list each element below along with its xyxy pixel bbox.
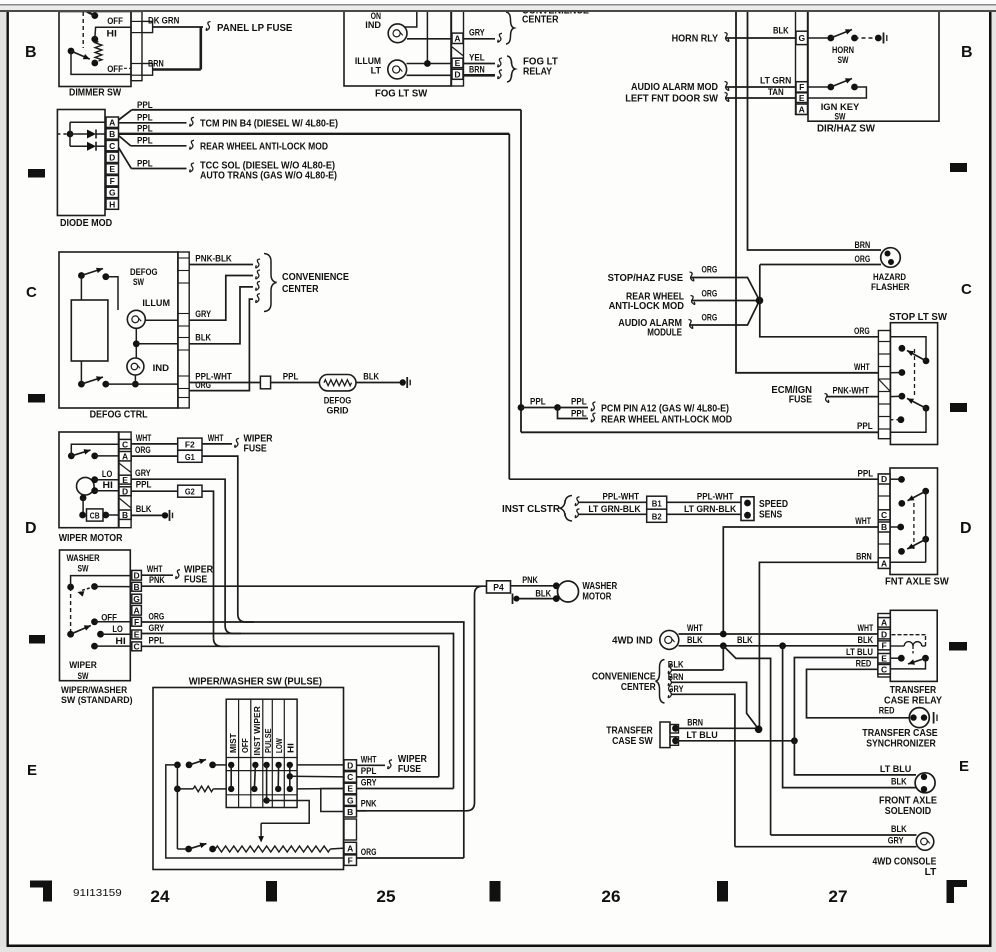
vertical from page top to ILLUM wire xyxy=(426,11,428,64)
wire vertical WHT x=736 from page top to stop lt sw xyxy=(736,11,878,373)
wire PPL vertical x=509 down to FNT AXLE feed xyxy=(508,134,510,479)
washer sw dashed pivot link xyxy=(70,587,72,634)
svg-text:TAN: TAN xyxy=(768,87,784,97)
wire switch to PPL-WHT out xyxy=(106,383,178,385)
svg-text:YEL: YEL xyxy=(469,53,485,63)
pulse sw pin F xyxy=(344,855,357,866)
wire GRY to 4wd console lt xyxy=(735,846,917,848)
svg-text:SYNCHRONIZER: SYNCHRONIZER xyxy=(866,739,936,750)
svg-text:P4: P4 xyxy=(493,582,503,592)
wire ORG wiper motor pin A to G1 xyxy=(131,455,178,457)
dimmer sw pin (BRN) xyxy=(142,64,153,76)
wire vertical junction to panel lp fuse xyxy=(200,27,203,70)
svg-text:PPL: PPL xyxy=(571,397,587,407)
wire PPL long to STOP LT SW xyxy=(521,431,878,433)
synchronizer ground xyxy=(933,712,935,724)
wire BLK convenience center xyxy=(668,665,672,674)
washer motor circle xyxy=(558,581,579,602)
svg-text:BLK: BLK xyxy=(668,660,684,670)
svg-text:GRY: GRY xyxy=(888,836,904,846)
svg-text:4WD CONSOLE: 4WD CONSOLE xyxy=(873,857,937,868)
svg-text:F: F xyxy=(799,82,804,92)
svg-text:E: E xyxy=(27,762,37,779)
fnt axle internal vertical xyxy=(925,491,927,562)
svg-text:LO: LO xyxy=(112,624,122,634)
wire LT BLU transfer case sw xyxy=(676,740,795,742)
svg-text:MODULE: MODULE xyxy=(647,328,682,339)
fnt axle pin A xyxy=(878,558,890,569)
pulse table contact dots row 2 xyxy=(228,786,234,792)
defog sw switch bottom xyxy=(78,381,85,388)
wire PPL to defog grid xyxy=(271,382,320,384)
svg-text:G1: G1 xyxy=(185,452,195,462)
fnt axle pin B xyxy=(878,522,890,532)
svg-text:OFF: OFF xyxy=(101,612,117,622)
fnt axle pin D xyxy=(878,474,890,484)
stop lt sw switch 1 xyxy=(923,358,930,365)
svg-text:B1: B1 xyxy=(652,498,662,508)
svg-text:C: C xyxy=(109,141,115,151)
svg-text:E: E xyxy=(109,164,115,174)
diode mod pin A xyxy=(106,117,119,127)
svg-text:H: H xyxy=(109,199,115,209)
left page border line xyxy=(7,10,9,946)
svg-text:F: F xyxy=(134,617,139,627)
bottom page border line xyxy=(7,945,992,948)
wire BLK washer motor to ground xyxy=(519,598,556,600)
wire BRN to fog lt relay (bold) xyxy=(464,74,496,77)
wire PPL vertical x=521 down to PCM junction xyxy=(520,110,522,433)
svg-text:REAR WHEEL ANTI-LOCK MOD: REAR WHEEL ANTI-LOCK MOD xyxy=(601,415,732,426)
svg-text:GRY: GRY xyxy=(149,623,165,633)
svg-text:B: B xyxy=(122,510,128,520)
washer switch contacts xyxy=(67,584,74,591)
svg-text:91I13159: 91I13159 xyxy=(73,887,122,899)
wire PNK P4 to washer motor xyxy=(511,585,557,587)
pulse sw pin D xyxy=(344,760,357,771)
svg-text:ORG: ORG xyxy=(702,289,718,299)
pulse sw pin E xyxy=(344,783,357,794)
defog sw switch top xyxy=(78,272,85,279)
svg-text:WHT: WHT xyxy=(208,433,224,443)
relay switch xyxy=(890,657,901,659)
dir/haz pin F xyxy=(796,82,808,92)
svg-text:ILLUM: ILLUM xyxy=(355,56,381,66)
svg-text:WASHER: WASHER xyxy=(66,553,99,564)
svg-text:ORG: ORG xyxy=(855,254,871,264)
wire GRY washer sw row to corner xyxy=(141,634,453,789)
svg-text:GRY: GRY xyxy=(469,28,485,38)
wiper motor LO tap xyxy=(91,476,98,483)
horn switch HORN SW xyxy=(808,37,831,39)
svg-text:LT GRN-BLK: LT GRN-BLK xyxy=(588,504,641,514)
svg-text:PPL: PPL xyxy=(137,100,153,110)
svg-text:PNK: PNK xyxy=(149,575,165,585)
svg-text:C: C xyxy=(122,439,128,449)
circuit breaker CB box xyxy=(87,509,104,521)
wire BLK defog grid to ground xyxy=(356,382,400,384)
svg-text:B: B xyxy=(347,807,353,817)
svg-text:CB: CB xyxy=(90,510,100,520)
svg-text:GRID: GRID xyxy=(327,406,349,417)
svg-text:ORG: ORG xyxy=(135,445,151,455)
speed sensor SPEED SENS connector xyxy=(741,497,754,521)
svg-text:A: A xyxy=(454,34,460,44)
wire PNK washer sw pin B to P4 xyxy=(141,585,486,587)
lamp IND defog xyxy=(127,358,144,375)
wiper motor switch xyxy=(68,453,75,460)
right margin tick 2 xyxy=(950,403,967,412)
wire DK GRN xyxy=(153,26,203,28)
svg-text:PPL: PPL xyxy=(283,372,299,382)
diode mod pin B xyxy=(106,129,119,139)
pulse internal ORG feed to pin F xyxy=(166,765,344,858)
wire PPL to fnt axle pin D xyxy=(509,478,878,480)
svg-text:G: G xyxy=(347,795,354,805)
fnt axle dashed link xyxy=(913,503,915,549)
transfer case synchronizer circle xyxy=(909,708,929,728)
washer motor ground xyxy=(514,596,520,602)
pulse sw left vertical xyxy=(176,765,178,789)
wire WHT to fnt axle pin B xyxy=(723,527,878,634)
svg-text:BRN: BRN xyxy=(855,240,871,250)
relay pin D xyxy=(878,629,890,639)
pulse sw resistor row xyxy=(174,786,181,793)
svg-text:FUSE: FUSE xyxy=(789,395,812,406)
pulse pot wiper arm from PULSE dot xyxy=(261,801,309,824)
wire PPL pin B long row3 to x=509 xyxy=(119,133,510,135)
pulse table PULSE bottom dot xyxy=(263,797,269,803)
wire ORG rear wheel mod xyxy=(692,300,760,302)
right margin tick 3 xyxy=(949,642,967,651)
svg-text:PPL-WHT: PPL-WHT xyxy=(697,491,734,501)
svg-text:F: F xyxy=(881,641,886,651)
wire ORG defog xyxy=(189,299,253,391)
pulse wiper switch outer box xyxy=(153,688,344,870)
wiper motor bottom to CB xyxy=(80,495,87,502)
junction dot BRN xyxy=(755,726,763,734)
diode D2 xyxy=(70,145,87,147)
wire PPL wiper motor pin D to G2 xyxy=(131,490,178,492)
wire RED relay pin C to synchronizer xyxy=(807,669,910,718)
svg-text:DK GRN: DK GRN xyxy=(148,16,179,26)
svg-text:INST WIPER: INST WIPER xyxy=(252,706,262,755)
svg-text:PPL: PPL xyxy=(137,136,153,146)
squiggle panel lp fuse xyxy=(206,22,210,31)
svg-text:WHT: WHT xyxy=(361,754,377,764)
pulse sw pin G xyxy=(344,795,357,806)
svg-text:INST CLSTR: INST CLSTR xyxy=(502,504,561,515)
svg-text:24: 24 xyxy=(150,888,170,906)
svg-text:HORN RLY: HORN RLY xyxy=(672,34,719,45)
svg-text:GRY: GRY xyxy=(668,684,684,694)
svg-text:BLK: BLK xyxy=(773,26,789,36)
svg-text:IND: IND xyxy=(153,363,170,374)
svg-text:OFF: OFF xyxy=(107,64,123,74)
svg-text:PANEL LP FUSE: PANEL LP FUSE xyxy=(217,23,293,34)
svg-text:RED: RED xyxy=(856,659,872,669)
lamp ON IND xyxy=(388,24,407,43)
svg-text:BRN: BRN xyxy=(856,551,872,561)
wire GRY wiper motor pin E down xyxy=(131,479,225,625)
connector P4 box xyxy=(487,581,511,593)
wire PNK-WHT ecm fuse to stop lt sw xyxy=(826,396,878,398)
svg-text:PPL: PPL xyxy=(136,480,152,490)
svg-text:BRN: BRN xyxy=(687,718,703,728)
svg-text:PPL: PPL xyxy=(137,159,153,169)
left margin tick 1 xyxy=(28,169,45,178)
svg-text:LT BLU: LT BLU xyxy=(846,647,873,657)
svg-text:GRY: GRY xyxy=(135,468,151,478)
wire BLK into box xyxy=(136,343,178,345)
svg-text:26: 26 xyxy=(601,888,620,906)
svg-text:PPL-WHT: PPL-WHT xyxy=(603,491,640,501)
svg-text:WIPER: WIPER xyxy=(69,660,97,671)
svg-text:G: G xyxy=(798,33,805,43)
pulse sw pivot contacts xyxy=(174,762,181,769)
wiper motor pin E xyxy=(119,475,131,484)
left margin tick 3 xyxy=(29,635,45,644)
svg-text:FUSE: FUSE xyxy=(398,764,421,775)
wire GRY pulse pin E to vertical xyxy=(357,788,454,790)
svg-text:C: C xyxy=(961,281,972,298)
wire BLK vertical to convenience center row xyxy=(722,646,724,670)
svg-text:A: A xyxy=(122,451,128,461)
fuse box F2 xyxy=(178,438,202,450)
svg-text:E: E xyxy=(122,475,128,485)
svg-text:TRANSFER: TRANSFER xyxy=(890,685,937,696)
connector box B2 xyxy=(647,509,667,522)
stop lt sw internal: ORG to upper contact xyxy=(890,337,926,361)
wire PPL long row1 to x=521 xyxy=(132,109,521,111)
stop light switch STOP LT SW box xyxy=(890,323,937,445)
svg-text:A: A xyxy=(881,558,887,568)
svg-text:B: B xyxy=(961,44,973,61)
wire ORG audio alarm module xyxy=(690,301,760,326)
fog lt sw strip diagonal xyxy=(452,47,464,57)
wire ORG junction down to stop lt sw xyxy=(760,301,879,337)
svg-text:C: C xyxy=(134,642,140,652)
svg-text:A: A xyxy=(134,605,140,615)
svg-text:BLK: BLK xyxy=(891,777,907,787)
wire WHT F2 to wiper fuse xyxy=(202,443,232,445)
dir/haz pin E xyxy=(796,93,808,103)
defog grid ground xyxy=(400,379,406,385)
pulse potentiometer switch xyxy=(185,846,192,853)
wire BLK to front axle solenoid xyxy=(783,646,916,788)
pulse switch table xyxy=(226,699,297,807)
svg-text:GRY: GRY xyxy=(195,309,211,319)
svg-text:LT BLU: LT BLU xyxy=(880,764,911,774)
svg-text:PPL: PPL xyxy=(571,409,587,419)
svg-text:ILLUM: ILLUM xyxy=(142,298,170,309)
svg-text:HI: HI xyxy=(107,28,117,38)
inst clstr brace xyxy=(559,496,572,522)
defog convenience center brace xyxy=(264,254,277,312)
svg-text:SPEED: SPEED xyxy=(759,499,788,510)
svg-text:BRN: BRN xyxy=(469,64,485,74)
inline connector box (defog) xyxy=(260,376,270,389)
wire PPL pin A to long run (row 1) xyxy=(119,110,132,120)
svg-text:LT: LT xyxy=(925,867,937,878)
svg-text:PPL: PPL xyxy=(149,636,165,646)
transfer case relay box xyxy=(890,610,937,681)
svg-text:DIR/HAZ SW: DIR/HAZ SW xyxy=(817,124,876,135)
svg-text:E: E xyxy=(799,93,805,103)
wiper motor WIPER MOTOR box xyxy=(59,432,119,528)
svg-text:E: E xyxy=(455,58,461,68)
fnt axle pin B dot xyxy=(890,526,901,528)
wire BLK horn rly to pin G xyxy=(726,37,796,39)
svg-text:E: E xyxy=(881,653,887,663)
svg-text:WHT: WHT xyxy=(136,433,152,443)
wire TAN to pin E xyxy=(726,97,796,99)
svg-text:E: E xyxy=(134,630,140,640)
front axle solenoid circle xyxy=(915,773,935,793)
pulse table row to pin D xyxy=(297,764,344,766)
washer/wiper standard switch box xyxy=(60,550,131,681)
relay pin E xyxy=(878,654,890,664)
defogger control DEFOG CTRL box xyxy=(59,252,178,408)
right page border line xyxy=(989,10,992,946)
svg-text:D: D xyxy=(881,629,887,639)
wiper motor HI tap xyxy=(91,487,98,494)
relay coil to pin D loop xyxy=(922,645,926,647)
svg-text:PPL: PPL xyxy=(858,468,874,478)
fog lt sw pin D xyxy=(452,69,463,79)
relay contact to pin C xyxy=(890,658,925,669)
wire WHT 4wd ind to relay pin D xyxy=(679,633,879,635)
relay coil xyxy=(890,645,904,647)
wire LT GRN-BLK inst clstr to B2 xyxy=(575,509,579,518)
svg-text:AUTO TRANS (GAS W/O 4L80-E): AUTO TRANS (GAS W/O 4L80-E) xyxy=(200,171,337,182)
svg-text:4WD IND: 4WD IND xyxy=(612,636,653,647)
fnt axle internal pin D dot xyxy=(890,478,902,480)
dir/haz pin A xyxy=(796,104,808,114)
svg-text:B: B xyxy=(134,582,140,592)
svg-text:SENS: SENS xyxy=(759,510,782,521)
svg-text:B: B xyxy=(109,129,115,139)
wiper motor pin D xyxy=(119,487,131,496)
defog lamps link vertical xyxy=(135,328,137,358)
defog inner rectangle xyxy=(71,300,108,361)
dimmer sw pivot wire to strip xyxy=(71,51,131,74)
svg-text:TRANSFER CASE: TRANSFER CASE xyxy=(862,728,938,739)
svg-text:A: A xyxy=(109,117,115,127)
defog connector strip xyxy=(178,252,189,408)
pulse table column links xyxy=(230,765,232,789)
wire ON IND lamp to pin A xyxy=(407,38,452,40)
wiper motor circle xyxy=(77,477,95,495)
wire GRY convenience center xyxy=(668,689,672,698)
lamp ILLUM LT xyxy=(388,60,407,79)
horn sw ground xyxy=(883,33,885,44)
pulse potentiometer resistor xyxy=(215,846,330,852)
svg-text:SW: SW xyxy=(78,564,89,575)
svg-text:WHT: WHT xyxy=(858,623,874,633)
wire BLK defog xyxy=(189,287,253,344)
svg-text:PPL: PPL xyxy=(857,421,873,431)
dimmer sw contact HI to DK GRN row xyxy=(91,36,98,43)
svg-text:E: E xyxy=(347,784,353,794)
svg-text:27: 27 xyxy=(828,888,847,906)
svg-text:MIST: MIST xyxy=(228,733,238,753)
washer sw connector strip pins xyxy=(132,570,142,580)
wire PNK pulse pin B to vertical xyxy=(357,810,367,812)
pulse table contact dots row 1 xyxy=(228,762,234,768)
wire WHT wiper motor pin C to F2 xyxy=(131,443,178,445)
svg-text:FLASHER: FLASHER xyxy=(871,282,910,293)
wire BRN to fnt axle pin A xyxy=(759,562,878,728)
diode mod pin D xyxy=(106,152,119,162)
stop lt sw internal PPL line xyxy=(890,408,926,432)
svg-text:DIMMER SW: DIMMER SW xyxy=(69,87,122,98)
defog sw wire L xyxy=(106,277,118,310)
svg-text:HI: HI xyxy=(103,480,113,490)
fog lt sw pin A xyxy=(452,33,463,43)
svg-text:ORG: ORG xyxy=(361,847,377,857)
svg-text:ORG: ORG xyxy=(702,265,718,275)
svg-text:PPL: PPL xyxy=(530,397,546,407)
svg-text:WHT: WHT xyxy=(854,362,870,372)
diode mod wire to pin A xyxy=(70,121,106,123)
dir/haz pin G xyxy=(796,31,808,44)
bottom-left corner mark xyxy=(30,881,52,902)
svg-text:AUDIO ALARM MOD: AUDIO ALARM MOD xyxy=(631,82,718,93)
svg-text:TRANSFER: TRANSFER xyxy=(606,726,653,737)
svg-text:PNK-WHT: PNK-WHT xyxy=(833,386,870,396)
lamp ILLUM defog xyxy=(127,310,145,328)
svg-text:PCM PIN A12 (GAS W/ 4L80-E): PCM PIN A12 (GAS W/ 4L80-E) xyxy=(601,404,729,415)
svg-text:E: E xyxy=(959,758,969,775)
wire BLK to 4wd console lt xyxy=(771,834,917,836)
wire WHT pulse pin D to wiper fuse xyxy=(357,764,386,766)
svg-text:B: B xyxy=(881,522,887,532)
svg-text:F: F xyxy=(348,855,353,865)
relay pin C xyxy=(878,665,890,675)
wire LT GRN to pin F xyxy=(726,86,796,88)
svg-text:MOTOR: MOTOR xyxy=(582,592,612,603)
svg-text:G: G xyxy=(133,594,140,604)
diode D1 xyxy=(70,133,87,135)
right margin tick 1 xyxy=(950,163,967,172)
wire PPL-WHT out of defog xyxy=(189,382,260,384)
pulse sw pin C xyxy=(344,772,357,783)
dimmer switch DIMMER SW box xyxy=(59,12,131,87)
svg-text:BRN: BRN xyxy=(668,672,684,682)
svg-text:OFF: OFF xyxy=(107,16,123,26)
dimmer sw connector strip xyxy=(131,12,142,81)
front axle switch FNT AXLE SW box xyxy=(890,468,938,575)
svg-text:OFF: OFF xyxy=(240,738,250,753)
svg-text:F2: F2 xyxy=(185,440,195,450)
wire ORG stop/haz fuse xyxy=(691,278,760,301)
fog lt sw connector strip xyxy=(452,11,464,86)
wire PPL-WHT inst clstr to B1 xyxy=(575,497,579,506)
connector box B1 xyxy=(647,496,667,509)
fog light switch FOG LT SW box xyxy=(344,11,451,86)
diode mod pin H xyxy=(106,199,119,209)
hazard flasher ORG wire xyxy=(760,264,881,266)
dimmer sw internal dashed line xyxy=(82,12,84,48)
svg-text:G: G xyxy=(109,188,116,198)
stop lt sw WHT contact xyxy=(899,369,906,376)
svg-text:25: 25 xyxy=(376,888,395,906)
defogger grid symbol DEFOG GRID xyxy=(319,375,356,391)
svg-text:PNK: PNK xyxy=(361,798,377,808)
dimmer sw rheostat xyxy=(95,42,102,62)
svg-text:WASHER: WASHER xyxy=(582,581,617,592)
